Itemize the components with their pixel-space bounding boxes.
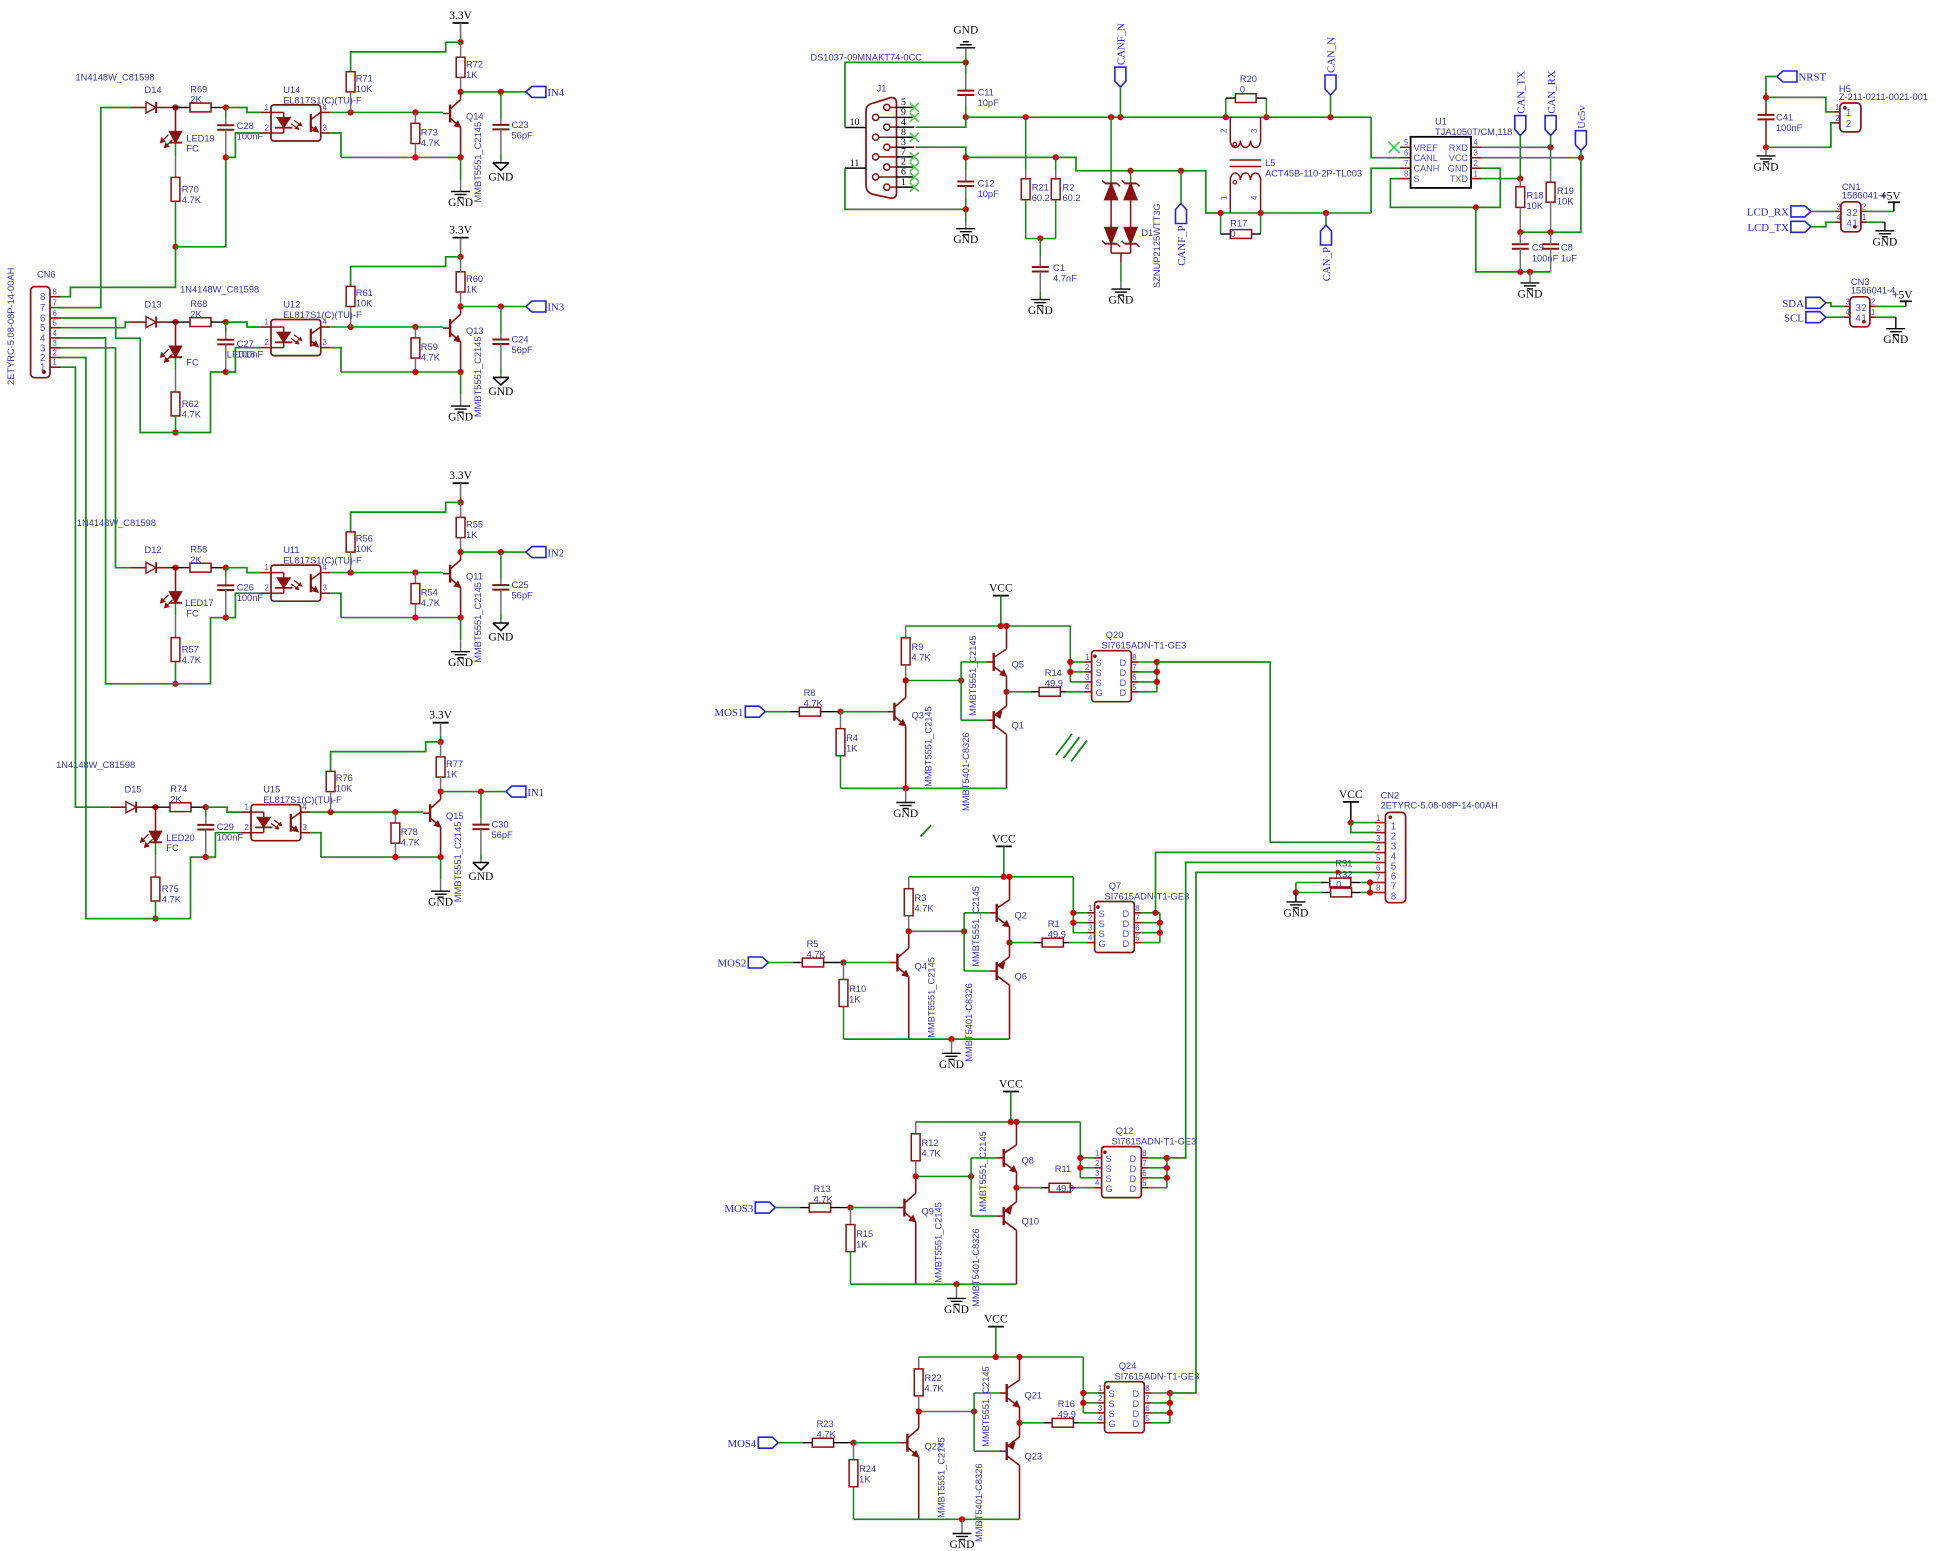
junction [1067,669,1073,675]
connector CN3 1586041-4 [1850,297,1870,327]
svg-text:8: 8 [1145,1384,1149,1393]
svg-text:5: 5 [1145,1414,1150,1423]
svg-text:C30: C30 [492,820,509,830]
ground under cap [493,162,509,164]
svg-text:VCC: VCC [1449,153,1469,163]
svg-text:R9: R9 [912,642,924,652]
no-connect X [910,133,919,142]
svg-text:R75: R75 [162,884,179,894]
svg-text:4.7K: 4.7K [912,653,932,663]
connector CN2 2ETYRC-5.08-08P-14-00AH [1385,812,1405,902]
wire J1 pin3 jog [916,147,966,157]
svg-text:D: D [1120,658,1127,668]
CN2 pin 7 [1375,882,1385,884]
transistor Q8 NPN [1003,1149,1005,1167]
svg-text:4: 4 [1250,195,1259,200]
junction [458,154,464,160]
svg-text:1: 1 [901,177,906,188]
junction [152,916,158,922]
H5 pin 1 [1834,111,1840,113]
junction [223,104,229,110]
wire U1 GND pin [1476,168,1501,207]
svg-text:D: D [1133,1419,1140,1429]
junction [1517,269,1523,275]
svg-text:1: 1 [265,103,269,112]
svg-text:2: 2 [1846,119,1851,130]
wire GND net down [1476,207,1551,272]
svg-text:GND: GND [1518,288,1543,300]
svg-text:1: 1 [1871,308,1875,317]
svg-text:Q3: Q3 [912,711,924,721]
svg-text:4: 4 [323,563,328,572]
svg-text:C26: C26 [237,583,254,593]
svg-text:Q20: Q20 [1106,630,1124,640]
junction gate node [1003,689,1009,695]
svg-text:MMBT5401-C8326: MMBT5401-C8326 [964,983,974,1062]
U1 pin 3 VCC [1471,157,1482,159]
svg-text:Q2: Q2 [1015,911,1027,921]
svg-text:R68: R68 [190,299,207,309]
svg-text:CN6: CN6 [37,270,56,280]
svg-text:S: S [1106,1164,1112,1174]
wire VCC rail [909,876,1074,878]
svg-text:MMBT5551_C2145: MMBT5551_C2145 [968,635,978,716]
svg-text:4: 4 [1088,934,1093,943]
svg-text:C23: C23 [512,120,529,130]
J1 pin 11 shield [845,167,866,169]
ground under C41 [1765,147,1767,156]
svg-text:S: S [1109,1409,1115,1419]
U1 pin 1 TXD [1471,178,1482,180]
svg-text:CANH: CANH [1414,164,1440,174]
svg-text:S: S [1099,929,1105,939]
svg-text:4: 4 [1085,683,1090,692]
resistor R77 1K [436,757,445,777]
wire CANH [1371,168,1400,213]
wire CN1 pin2 to +5V [1867,210,1894,212]
svg-text:4.7K: 4.7K [922,1149,942,1159]
svg-text:Q9: Q9 [922,1206,934,1216]
capacitor C8 1uF [1542,243,1559,245]
resistor R73 4.7K [414,112,416,123]
svg-text:R17: R17 [1230,219,1247,229]
wire VCC rail [919,1356,1084,1358]
wire CN6 pin6 to IN3 bottom [61,318,176,433]
svg-text:U12: U12 [283,300,300,310]
J1 pin 1 [884,184,890,190]
junction [348,324,354,330]
svg-text:DS1037-09MNAKT74-0CC: DS1037-09MNAKT74-0CC [810,53,922,63]
wire opto pin2 to junction [226,593,261,617]
svg-text:1586041-4: 1586041-4 [1851,285,1895,295]
Q20 pin 3 S [1085,681,1092,683]
svg-text:1: 1 [265,563,269,572]
LED LED20 [155,807,157,831]
transistor Q15 NPN [429,804,431,822]
wire RXD [1482,146,1551,148]
Q20 pin 6 D [1131,681,1138,683]
ground emitter GND [460,372,462,395]
svg-text:G: G [1099,939,1106,949]
svg-text:CANF_P: CANF_P [1176,226,1188,266]
svg-text:60.2: 60.2 [1032,193,1050,203]
U1 pin 4 RXD [1471,146,1482,148]
capacitor C30 56pF [480,792,482,819]
svg-text:5: 5 [1404,138,1409,147]
resistor R18 10K [1519,179,1521,187]
svg-text:10K: 10K [356,299,373,309]
svg-text:GND: GND [448,412,473,424]
svg-text:4.7K: 4.7K [814,1194,834,1204]
svg-text:GND: GND [1283,907,1308,919]
net flag CAN_P [1321,225,1332,245]
svg-text:1K: 1K [859,1475,871,1485]
svg-text:R77: R77 [446,759,463,769]
svg-text:5: 5 [1376,854,1381,863]
svg-text:CAN_P: CAN_P [1321,247,1333,281]
svg-text:R71: R71 [356,74,373,84]
junction [1164,1155,1170,1161]
wire base node [909,930,964,932]
wire R31 left down [1295,883,1297,893]
resistor R21 60.2 [1025,117,1027,170]
junction [1367,889,1373,895]
junction [1167,1400,1173,1406]
svg-text:R5: R5 [807,939,819,949]
Q24 pin 1 S [1098,1392,1105,1394]
resistor R19 10K [1550,147,1552,171]
svg-text:3.3V: 3.3V [449,10,472,22]
svg-text:Q23: Q23 [1025,1452,1043,1462]
junction [998,623,1004,629]
no-connect X [910,113,919,122]
wire CAN_P node row [1221,212,1372,214]
svg-text:100nF: 100nF [1776,123,1803,133]
svg-text:2: 2 [1861,303,1866,314]
svg-text:D: D [1120,688,1127,698]
resistor R24 1K [853,1443,855,1460]
transistor Q13 NPN [449,319,451,337]
optocoupler U12 EL817 [271,320,321,356]
svg-text:8: 8 [1404,169,1408,178]
svg-text:FC: FC [186,144,199,154]
junction [1157,920,1163,926]
svg-text:1: 1 [1095,1149,1099,1158]
capacitor C23 56pF [500,92,502,119]
svg-text:IN2: IN2 [547,547,564,559]
svg-text:MMBT5401-C8326: MMBT5401-C8326 [961,732,971,811]
wire output row [441,791,506,793]
svg-text:7: 7 [1132,663,1136,672]
wire CN3 pin2 to +5V [1876,305,1906,307]
svg-text:4: 4 [1095,1179,1100,1188]
svg-text:4: 4 [1845,308,1850,317]
svg-text:SI7615ADN-T1-GE3: SI7615ADN-T1-GE3 [1112,1137,1197,1147]
transistor Q5 NPN [993,653,995,671]
svg-text:R4: R4 [846,733,858,743]
svg-text:S: S [1109,1389,1115,1399]
svg-text:S: S [1106,1174,1112,1184]
no-connect X on VREF [1389,142,1400,153]
svg-text:R57: R57 [182,645,199,655]
wire S pins tie to VCC [1069,626,1071,682]
wire bottom return [176,157,226,246]
junction [1473,204,1479,210]
wire CN6 pin2 to IN1 bottom [61,358,156,919]
svg-text:GND: GND [468,871,493,883]
junction [1763,144,1769,150]
CN1 pin 1 [1861,221,1867,223]
junction [1258,210,1264,216]
svg-text:1: 1 [1474,169,1478,178]
wire VCC node to caps [1520,158,1581,233]
svg-text:D15: D15 [125,785,142,795]
U1 pin 5 VREF [1400,146,1411,148]
svg-text:VCC: VCC [989,583,1013,595]
junction [1001,874,1007,880]
svg-text:SZNUP2125WTT3G: SZNUP2125WTT3G [1152,203,1162,288]
net flag IN4 [526,86,546,97]
junction [498,89,504,95]
svg-text:C8: C8 [1561,243,1573,253]
junction [968,1173,974,1179]
wire opto pin4 to base node [310,811,423,813]
svg-text:2: 2 [265,338,269,347]
svg-text:3: 3 [323,124,327,133]
svg-text:4: 4 [1376,844,1381,853]
net flag MOS1 [745,706,765,717]
resistor R71 10K [346,72,355,92]
svg-text:Q15: Q15 [446,811,464,821]
junction [1053,154,1059,160]
svg-text:S: S [1096,678,1102,688]
svg-text:1N4148W_C81598: 1N4148W_C81598 [76,73,155,83]
svg-text:MMBT5551_C2145: MMBT5551_C2145 [934,1202,944,1283]
wire pin11 down to C12 bottom [845,168,966,209]
svg-text:49.9: 49.9 [1048,929,1066,939]
svg-text:U1: U1 [1435,117,1447,127]
wire bottom row [321,856,441,858]
svg-text:NRST: NRST [1799,72,1827,84]
svg-text:5: 5 [1142,1179,1147,1188]
svg-text:R10: R10 [849,984,866,994]
wire 3.3V to R71 top [351,257,461,287]
ground emitter GND [440,857,442,880]
junction gate node [1013,1185,1019,1191]
wire bottom row [341,371,461,373]
power VCC [993,595,1009,597]
svg-text:GND: GND [950,1539,975,1551]
junction [1128,168,1134,174]
resistor R2 60.2 [1055,157,1057,170]
svg-text:C25: C25 [512,580,529,590]
ground GND rail [1529,272,1531,283]
junction [1070,910,1076,916]
resistor R13 4.7K input [775,1207,800,1209]
svg-text:56pF: 56pF [512,591,534,601]
junction [412,154,418,160]
wire R31/R32 right tie [1369,883,1371,893]
svg-text:R14: R14 [1045,668,1062,678]
svg-text:Q6: Q6 [1015,972,1027,982]
svg-text:C11: C11 [978,88,994,98]
svg-text:4.7K: 4.7K [915,904,935,914]
svg-text:10K: 10K [1557,197,1574,207]
svg-text:6: 6 [1145,1404,1149,1413]
wire base [844,962,891,964]
Q7 pin 1 S [1088,912,1095,914]
Q20 pin 8 D [1131,661,1138,663]
ground [905,788,907,802]
svg-text:4.7K: 4.7K [401,838,421,848]
wire VCC [1482,157,1581,159]
wire CN6 pin5 to IN3 rail [61,322,132,328]
ground under C1 [1031,299,1050,301]
junction [837,709,843,715]
svg-text:4.7K: 4.7K [807,949,827,959]
wire bottom row [341,156,461,158]
capacitor C28 100nF [225,108,227,118]
junction [412,570,418,576]
svg-text:C12: C12 [978,179,995,189]
svg-text:Q10: Q10 [1022,1217,1040,1227]
svg-text:5: 5 [1132,683,1137,692]
optocoupler U14 EL817 [271,105,321,141]
wire S pins tie to VCC [1079,1122,1081,1178]
wire NRST [1766,77,1777,98]
wire MOS3 output to CN2 pin5 [1167,862,1375,1158]
svg-text:D: D [1123,929,1130,939]
svg-text:GND: GND [448,197,473,209]
wire R to opto pin1 [226,322,261,327]
wire 3.3V to R71 top [351,502,461,532]
svg-text:S: S [1096,668,1102,678]
junction [1067,659,1073,665]
CN6 pin 2 [50,357,61,359]
svg-text:MMBT5551_C2145: MMBT5551_C2145 [981,1366,991,1447]
junction [903,785,909,791]
junction [1167,1390,1173,1396]
svg-text:R8: R8 [804,688,816,698]
svg-text:MMBT5551_C2145: MMBT5551_C2145 [924,706,934,787]
transistor Q2 NPN [996,904,998,922]
svg-text:+5V: +5V [1880,191,1901,203]
no-connect hatch mark small [921,825,932,836]
svg-text:4.7K: 4.7K [162,895,182,905]
power VCC CN2 [1343,801,1359,803]
junction [172,681,178,687]
power 3.3V supply IN1 channel [433,722,449,724]
junction [172,429,178,435]
junction [1108,114,1114,120]
junction [1164,1165,1170,1171]
wire base tie vertical [963,913,965,971]
wire D pins tie [1156,662,1158,692]
svg-text:D12: D12 [145,545,162,555]
svg-text:7: 7 [53,299,57,308]
resistor R11 49.9 gate [1017,1187,1042,1189]
U1 pin 6 CANL [1400,157,1411,159]
ground emitter GND [460,618,462,641]
svg-text:10K: 10K [356,544,373,554]
junction [963,59,969,65]
resistor R60 1K [456,272,465,292]
svg-text:MOS2: MOS2 [717,958,746,970]
svg-text:CAN_RX: CAN_RX [1546,70,1558,113]
transistor Q22 NPN input [906,1434,908,1452]
junction [498,303,504,309]
svg-text:R12: R12 [922,1138,939,1148]
svg-text:GND: GND [1883,334,1908,346]
ground under D1 [1120,262,1122,282]
Q7 pin 7 D [1134,922,1141,924]
optocoupler U11 EL817 [271,565,321,601]
wire VCC to pin1 [1351,822,1375,824]
connector CN1 1586041-4 [1841,202,1861,232]
junction [438,739,444,745]
junction [498,549,504,555]
svg-text:3: 3 [53,339,57,348]
wire 3.3V to R71 top [331,742,441,772]
svg-text:GND: GND [1872,236,1897,248]
svg-text:ACT45B-110-2P-TL003: ACT45B-110-2P-TL003 [1265,169,1362,179]
transistor Q10 PNP [1003,1207,1005,1225]
svg-text:J1: J1 [877,84,887,94]
svg-text:2K: 2K [190,95,202,105]
svg-text:LCD_RX: LCD_RX [1747,207,1789,219]
Q12 pin 8 D [1141,1157,1148,1159]
J1 pin 8 [873,134,879,140]
Q7 pin 3 S [1088,932,1095,934]
junction [959,1516,965,1522]
svg-text:3: 3 [1250,129,1259,133]
svg-text:3: 3 [1845,297,1849,306]
svg-text:0: 0 [1230,229,1235,239]
transistor Q6 PNP [996,962,998,980]
U1 pin 2 GND [1471,167,1482,169]
svg-text:10K: 10K [336,784,353,794]
wire MOS1 output to CN2 pin3 [1157,662,1375,842]
CN3 pin 3 [1844,305,1850,307]
svg-text:R15: R15 [856,1229,873,1239]
wire opto pin4 to base node [330,572,443,574]
svg-text:0: 0 [1240,85,1245,95]
wire output row [461,91,526,93]
ground above C11 (flipped) [965,54,967,62]
junction [1080,1390,1086,1396]
junction [1223,114,1229,120]
svg-text:Q24: Q24 [1119,1361,1137,1371]
svg-text:4: 4 [323,318,328,327]
junction [348,570,354,576]
junction [458,615,464,621]
svg-text:SI7615ADN-T1-GE3: SI7615ADN-T1-GE3 [1105,892,1190,902]
svg-text:3: 3 [323,338,327,347]
ground under cap [473,862,489,864]
junction collector node [458,549,464,555]
svg-text:5: 5 [53,319,58,328]
svg-text:IN1: IN1 [527,787,544,799]
resistor R72 1K [456,57,465,77]
Q12 pin 5 D [1141,1187,1148,1189]
no-connect X [910,163,919,172]
wire CN6 pin1 to IN1 rail [61,367,112,807]
MOSFET Q7 SI7615ADN dual P-channel [1095,902,1135,953]
svg-text:6: 6 [1135,924,1139,933]
wire bottom rail [851,1283,1017,1285]
resistor R58 [170,567,190,569]
wire D pins tie [1166,1158,1168,1188]
